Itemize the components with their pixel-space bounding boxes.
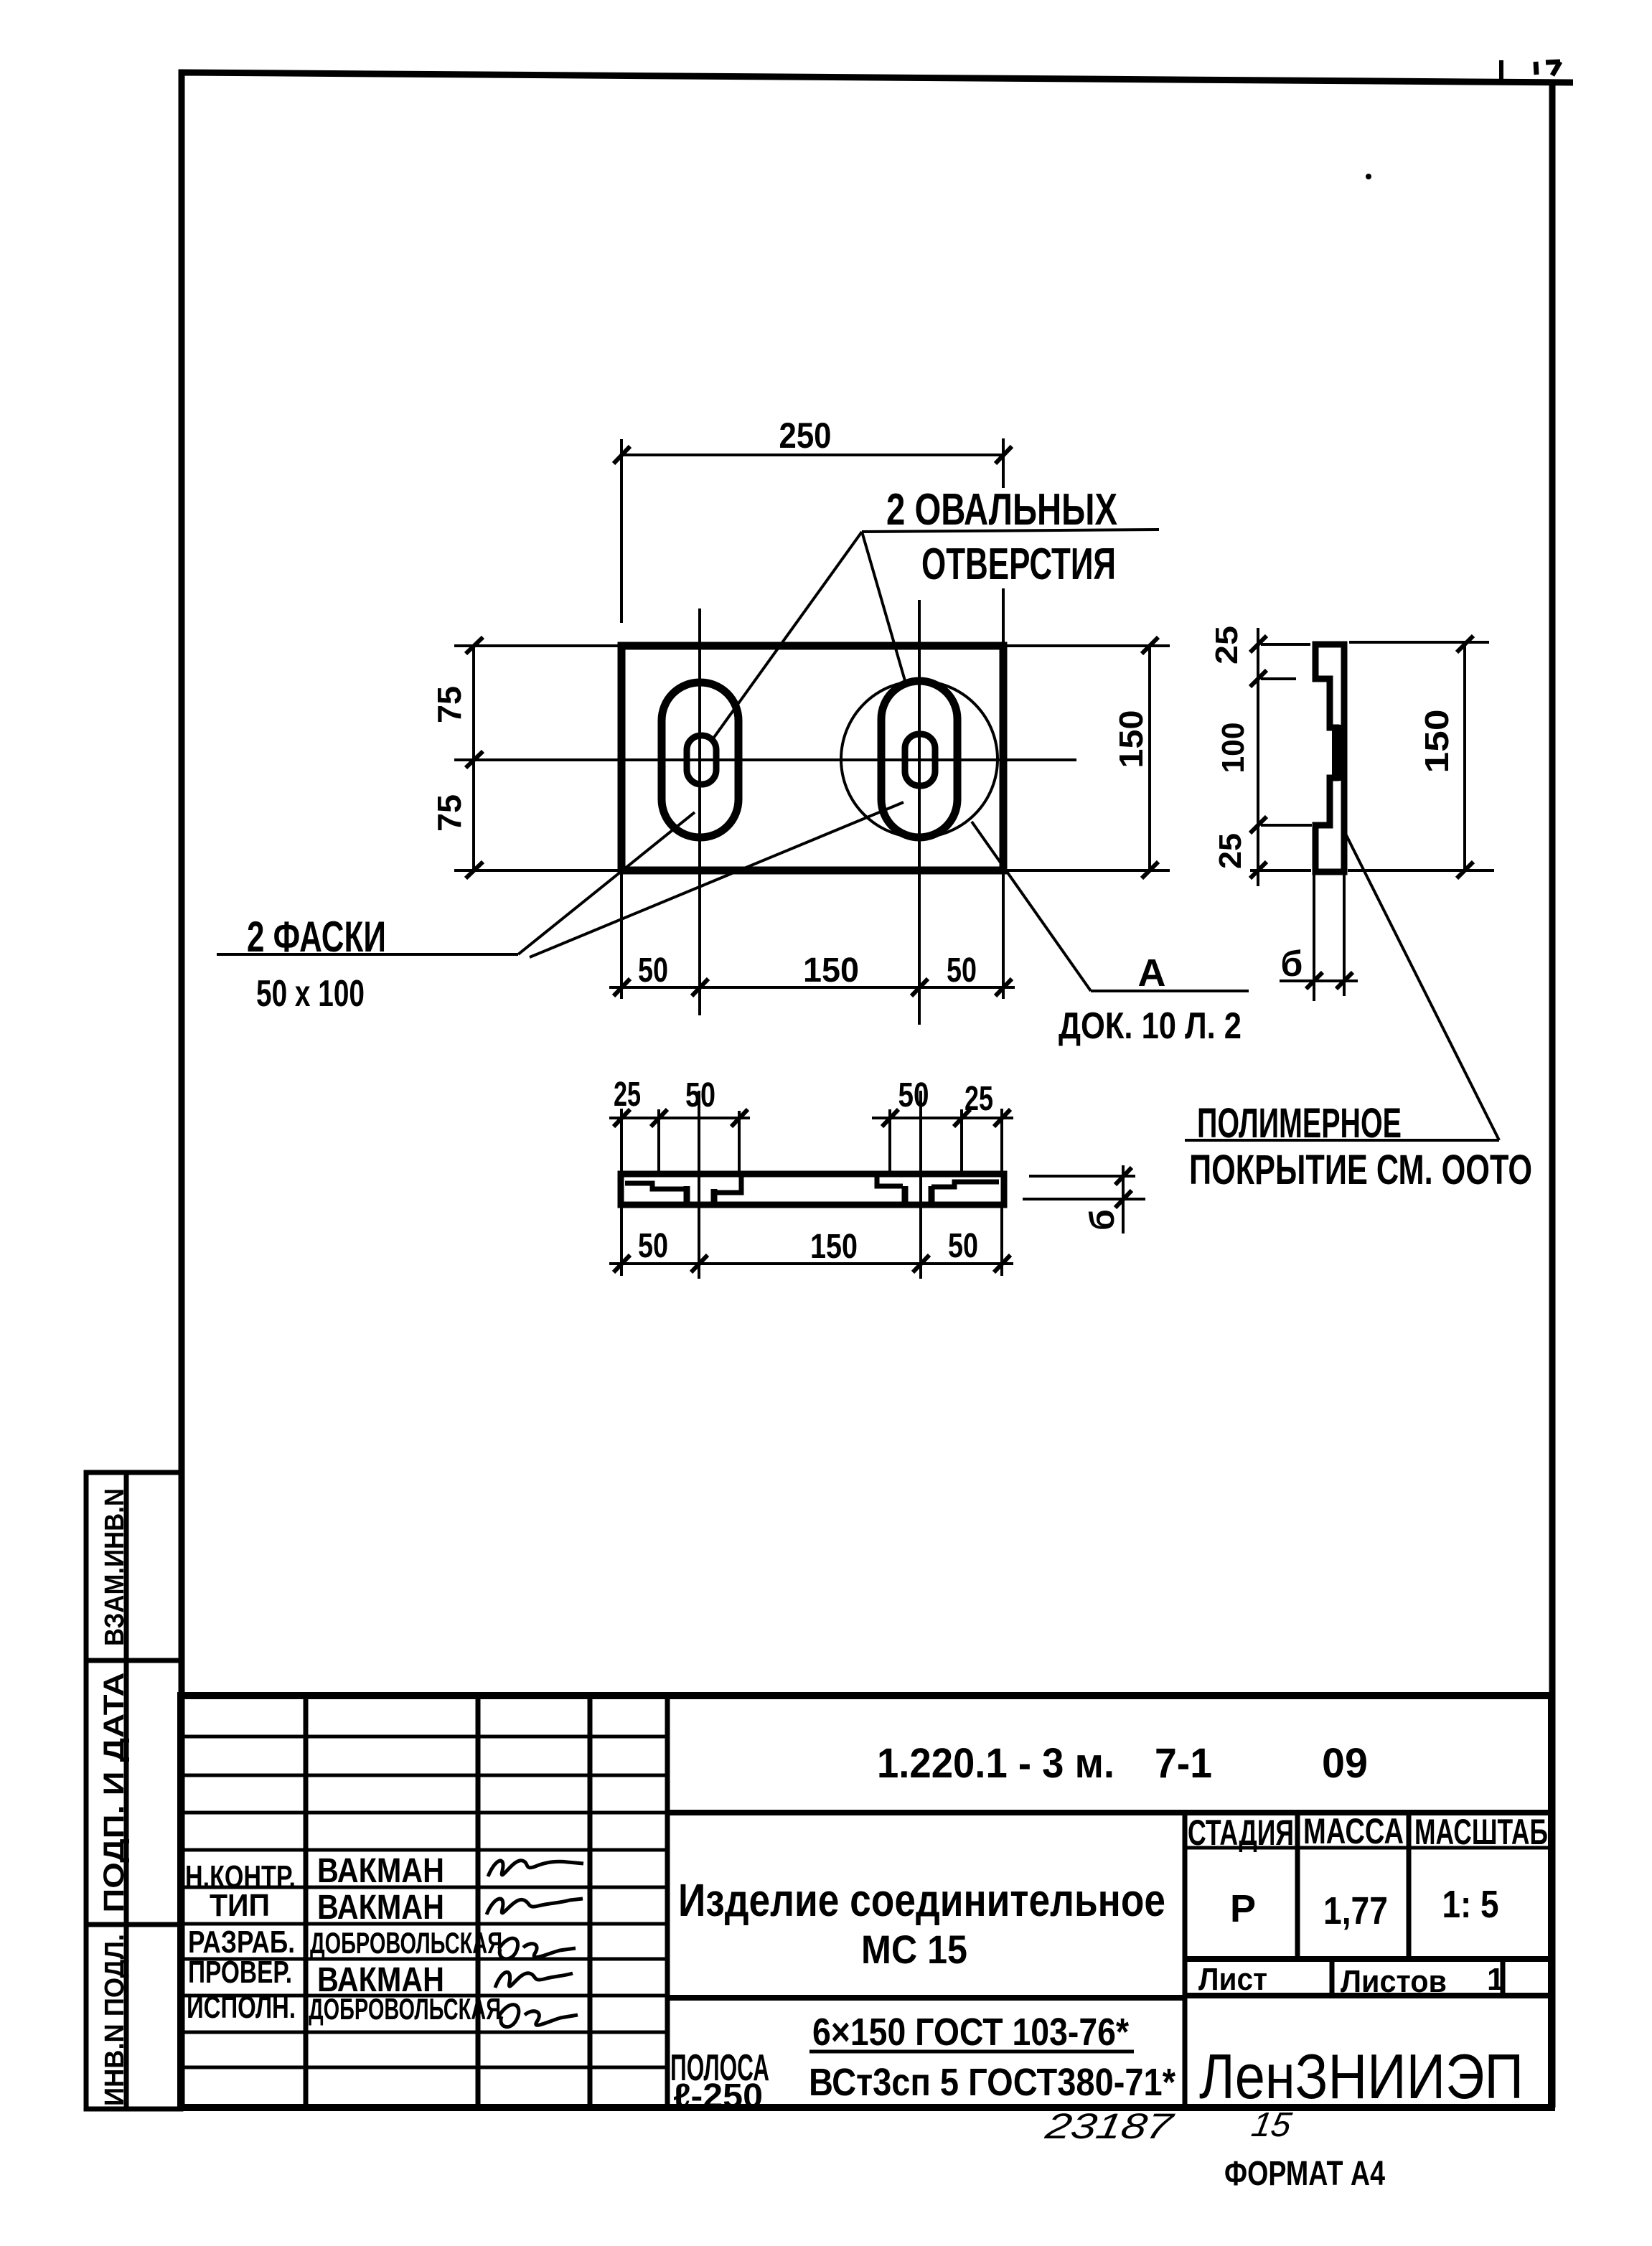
title block vertical dividers left section: [306, 1696, 667, 2108]
svg-text:ВСт3сп 5 ГОСТ380-71*: ВСт3сп 5 ГОСТ380-71*: [809, 2061, 1175, 2104]
svg-text:ТИП: ТИП: [210, 1888, 270, 1923]
section left hole wall left: [684, 1186, 690, 1203]
svg-text:23187: 23187: [1042, 2105, 1178, 2146]
centerline horizontal: [454, 758, 1076, 761]
signature row5: [499, 2005, 578, 2027]
svg-text:2 ОВАЛЬНЫХ: 2 ОВАЛЬНЫХ: [886, 485, 1117, 535]
svg-text:25: 25: [1213, 833, 1248, 869]
stamp box podp. i data: [86, 1660, 181, 1925]
dimension 75+75 (left): [454, 637, 621, 878]
svg-text:2 ФАСКИ: 2 ФАСКИ: [247, 913, 386, 961]
svg-text:50 х 100: 50 х 100: [256, 973, 365, 1015]
stamp box inv.N podl.: [86, 1925, 181, 2109]
title block horizontal row lines left section: [181, 1737, 667, 2067]
dimension 250 (top): [614, 438, 1012, 644]
section left hole wall right: [711, 1189, 718, 1203]
svg-text:ВЗАМ.ИНВ.N: ВЗАМ.ИНВ.N: [100, 1488, 130, 1646]
svg-text:ПОКРЫТИЕ СМ. ООТО: ПОКРЫТИЕ СМ. ООТО: [1189, 1147, 1532, 1193]
svg-text:ДОБРОВОЛЬСКАЯ: ДОБРОВОЛЬСКАЯ: [310, 1926, 502, 1960]
svg-text:50: 50: [685, 1076, 715, 1114]
svg-text:ОТВЕРСТИЯ: ОТВЕРСТИЯ: [921, 540, 1116, 589]
svg-text:75: 75: [431, 794, 468, 832]
svg-text:ЛенЗНИИЭП: ЛенЗНИИЭП: [1199, 2041, 1524, 2112]
left oval hole (inner stadium): [687, 736, 716, 784]
svg-text:Р: Р: [1230, 1887, 1256, 1930]
section centerline right hole: [919, 1091, 922, 1279]
plate outline (plan): [621, 646, 1003, 870]
section right chamfer step left: [877, 1177, 903, 1186]
svg-text:Лист: Лист: [1198, 1962, 1267, 1997]
leader polymer coating: [1185, 832, 1499, 1140]
frame top-right pencil mark 17: [1536, 62, 1560, 75]
signature row4: [495, 1972, 573, 1988]
right oval hole (inner stadium): [905, 734, 935, 786]
svg-text:25: 25: [1209, 626, 1244, 664]
svg-text:ФОРМАТ А4: ФОРМАТ А4: [1224, 2155, 1385, 2193]
svg-text:ВАКМАН: ВАКМАН: [317, 1889, 444, 1927]
svg-text:75: 75: [431, 686, 468, 723]
right oval hole chamfer (outer stadium): [881, 681, 957, 837]
left oval hole chamfer (outer stadium): [662, 682, 738, 837]
dimension 25-100-25 (side view left): [1250, 628, 1312, 886]
section left chamfer step right: [714, 1177, 741, 1193]
signature row3: [499, 1938, 576, 1959]
svg-text:ПОДП. И ДАТА: ПОДП. И ДАТА: [98, 1673, 130, 1913]
side profile outline: [1315, 644, 1344, 872]
svg-text:ДОБРОВОЛЬСКАЯ: ДОБРОВОЛЬСКАЯ: [309, 1992, 501, 2026]
signature row1: [488, 1861, 583, 1876]
leader 2 faski: [217, 802, 904, 957]
svg-text:150: 150: [1112, 710, 1150, 769]
svg-text:150: 150: [810, 1228, 858, 1266]
title block vertical dividers right section: [1185, 1813, 1503, 2108]
svg-text:150: 150: [1418, 710, 1455, 774]
dimension 25-50 (section top-left): [609, 1109, 750, 1171]
title block outer border: [181, 1696, 1552, 2108]
svg-text:50: 50: [947, 952, 977, 990]
section right hole wall left: [902, 1186, 909, 1203]
svg-text:50: 50: [948, 1227, 978, 1265]
stray ink dot: [1366, 174, 1371, 179]
section right hole wall right: [929, 1186, 935, 1203]
dimension 150 (right of plan): [1006, 637, 1170, 878]
svg-text:ПОЛИМЕРНОЕ: ПОЛИМЕРНОЕ: [1197, 1100, 1402, 1147]
dimension 150 (side view right): [1348, 636, 1494, 878]
dimension b thickness (below side view): [1280, 872, 1358, 1001]
svg-text:100: 100: [1216, 723, 1251, 774]
svg-text:25: 25: [614, 1076, 641, 1114]
svg-text:50: 50: [638, 1227, 668, 1265]
section left chamfer step: [625, 1183, 685, 1189]
svg-text:25: 25: [965, 1080, 993, 1118]
drawing frame: [182, 72, 1573, 2108]
svg-text:МАССА: МАССА: [1303, 1811, 1404, 1851]
svg-text:50: 50: [638, 952, 668, 990]
svg-text:ИНВ.N ПОДЛ.: ИНВ.N ПОДЛ.: [100, 1934, 130, 2106]
svg-text:50: 50: [898, 1076, 929, 1114]
stadiya masса masshtab header underline: [1185, 1846, 1552, 1850]
title block main horizontal dividers: [667, 1813, 1552, 1998]
detail circle A: [841, 681, 998, 837]
svg-text:МС 15: МС 15: [861, 1927, 967, 1972]
stamp box vzam.inv.N: [86, 1472, 181, 1660]
section bar outline: [621, 1174, 1004, 1205]
svg-text:15: 15: [1249, 2105, 1295, 2144]
dimension b thickness (right of section): [1023, 1165, 1145, 1234]
leader 2 oval holes: [711, 530, 1159, 741]
dimension 50-150-50 (section bottom): [609, 1208, 1013, 1276]
centerline right oval (vertical): [918, 600, 921, 1025]
svg-text:б: б: [1084, 1209, 1122, 1231]
svg-text:7-1: 7-1: [1155, 1740, 1212, 1787]
section centerline left hole: [698, 1091, 700, 1279]
svg-text:1: 1: [1487, 1962, 1504, 1997]
svg-text:ПРОВЕР.: ПРОВЕР.: [188, 1955, 292, 1990]
dimension 50-25 (section top-right): [872, 1109, 1013, 1171]
svg-text:ВАКМАН: ВАКМАН: [317, 1852, 444, 1890]
svg-text:ℓ-250: ℓ-250: [673, 2077, 763, 2115]
svg-text:250: 250: [779, 415, 832, 456]
svg-text:СТАДИЯ: СТАДИЯ: [1188, 1813, 1294, 1853]
signature row2: [487, 1899, 583, 1914]
material fraction line: [809, 2050, 1134, 2054]
svg-text:1.220.1 - 3 м.: 1.220.1 - 3 м.: [877, 1740, 1114, 1787]
centerline left oval (vertical): [698, 609, 701, 1015]
svg-text:1,77: 1,77: [1323, 1889, 1388, 1932]
svg-text:ИСПОЛН.: ИСПОЛН.: [187, 1990, 296, 2025]
svg-text:б: б: [1281, 944, 1303, 984]
frame top-right pencil tick: [1499, 60, 1503, 82]
svg-text:Листов: Листов: [1341, 1964, 1447, 1999]
leader detail A: [972, 822, 1249, 991]
svg-text:Изделие соединительное: Изделие соединительное: [678, 1874, 1165, 1926]
svg-text:6×150 ГОСТ 103-76*: 6×150 ГОСТ 103-76*: [812, 2011, 1129, 2054]
svg-text:1: 5: 1: 5: [1442, 1883, 1499, 1926]
svg-text:150: 150: [803, 952, 859, 990]
svg-text:ДОК. 10 Л. 2: ДОК. 10 Л. 2: [1059, 1005, 1242, 1047]
side profile hole slot (solid): [1332, 725, 1346, 781]
svg-text:09: 09: [1322, 1740, 1368, 1787]
section right chamfer step: [931, 1182, 999, 1187]
dimension 50-150-50 (below plan): [609, 870, 1015, 999]
svg-text:А: А: [1138, 952, 1166, 995]
svg-text:МАСШТАБ: МАСШТАБ: [1414, 1812, 1548, 1852]
